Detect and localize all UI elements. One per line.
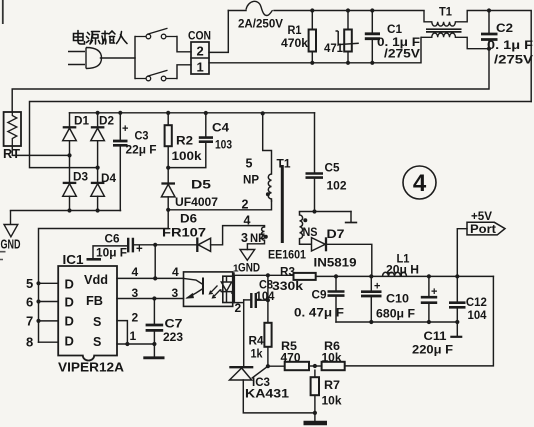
svg-text:NS: NS [303,225,318,239]
svg-text:R3: R3 [280,265,295,279]
junction R3 left node [266,273,270,277]
wire line A to RT [12,49,489,112]
svg-text:D: D [65,334,74,349]
svg-text:+: + [122,123,128,135]
svg-text:NP: NP [243,173,259,187]
svg-text:FR107: FR107 [162,226,206,240]
svg-text:10μ F: 10μ F [96,246,127,260]
wire R3 to rail [316,275,336,277]
wire opto pin2 KA431 cathode [243,300,245,366]
svg-text:D3: D3 [73,170,88,184]
wire D5 anode lead [167,197,169,210]
ground primary GND [4,211,18,237]
capacitor C9 0.47uF [328,292,345,296]
junction Vdd node [153,276,157,280]
svg-text:22μ F: 22μ F [126,143,157,157]
wire S1a to CON pin2 [177,37,191,52]
wire plug to switch [101,57,136,59]
svg-text:C4: C4 [212,121,229,135]
connector CON [191,42,209,74]
svg-text:3: 3 [241,231,248,245]
ground bar primary source [143,356,164,359]
svg-text:CON: CON [188,29,211,43]
svg-text:223: 223 [163,330,183,344]
svg-text:FB: FB [86,294,103,308]
junction gnd node [313,411,317,415]
svg-text:103: 103 [215,138,232,152]
wire RT to bridge AC1 [12,146,69,155]
svg-text:S: S [93,315,101,329]
wire D1-D3 link [69,142,71,183]
junction C12 top [455,274,459,278]
wire D2-D4 link [97,142,99,183]
resistor R2 [165,125,172,146]
junction C10 bottom [369,320,373,324]
wire C3 leads [119,113,121,211]
svg-text:102: 102 [327,179,347,193]
wire C9 leads [335,276,337,322]
svg-text:EE1601: EE1601 [268,248,306,262]
note circled 4 [403,166,436,199]
wire drain to NP pin2 [168,201,271,210]
svg-text:D: D [65,314,74,329]
transformer T1 feedback winding NF [262,226,265,241]
svg-text:+5V: +5V [471,211,492,223]
junction S pins [125,342,129,346]
inductor T1 top winding [424,11,489,27]
wire C7 leads [153,299,155,345]
svg-text:/275V: /275V [494,53,533,67]
capacitor C11 220uF [421,297,437,303]
svg-text:C3: C3 [135,129,149,143]
wire D6 anode to NF pin4 [211,226,265,245]
svg-text:D: D [65,295,74,310]
svg-text:5: 5 [26,276,33,291]
wire C8 left lead [244,299,252,301]
op-amp/IC U1 VIPER12A box [58,266,117,361]
svg-text:6: 6 [26,295,33,310]
diode D2 [91,127,105,140]
wire to fuse F1 [228,10,246,12]
wire output +5V rail [336,275,493,277]
wire CON pin2 to fuse [209,11,228,53]
ground bar C12 [450,336,462,338]
wire C4 leads [168,113,206,168]
wire C10 leads [370,276,372,322]
resistor R6 [322,362,345,370]
optocoupler U2 transistor box [184,272,233,307]
junction C9 top [334,274,338,278]
junction C5 NS node [312,209,316,213]
wire IC1 pin 7 stub [39,320,59,322]
decorative [0,252,6,260]
svg-text:220μ F: 220μ F [412,343,453,357]
wire ref node to R5 [268,365,285,367]
svg-text:D: D [65,277,74,292]
svg-text:1: 1 [130,329,137,343]
capacitor C1 [365,34,380,39]
junction C2 top [487,8,491,12]
wire C2 leads [488,11,490,49]
inductor L1 20uH [383,272,407,276]
wire R5 to R6 [309,365,322,367]
svg-text:1: 1 [197,60,204,75]
svg-text:2: 2 [197,44,204,59]
svg-text:330k: 330k [272,279,303,293]
junction C11 top [427,274,431,278]
svg-text:S: S [93,335,101,349]
svg-text:C7: C7 [165,317,183,331]
svg-text:4: 4 [413,170,427,197]
transformer T1 core [281,165,284,243]
junction C4 top [204,111,208,115]
wire output 0V rail [336,321,457,323]
wire D3 anode lead [69,196,71,210]
wire R1 leads [311,11,313,63]
diode D4 [91,183,105,196]
svg-text:C5: C5 [325,161,340,175]
capacitor C4 103 [199,138,213,142]
svg-text:C6: C6 [105,232,120,246]
svg-text:2A/250V: 2A/250V [238,17,283,31]
wire shield stub [350,212,352,223]
wire opto pin2 [233,302,244,304]
inductor T1 bottom winding [421,33,489,49]
wire FB to opto pin3 [117,298,184,300]
junction D2 top [96,111,100,115]
wire D2 cathode lead [97,113,99,128]
junction C10 top [369,274,373,278]
svg-text:4: 4 [132,265,139,279]
wire C11 leads [428,276,430,322]
transformer T1 primary winding NP [268,174,271,199]
resistor R1 [309,30,316,52]
junction NP pin5 rail [261,111,265,115]
svg-text:3: 3 [172,286,179,300]
svg-text:3: 3 [132,286,139,300]
wire S1b to CON pin1 [177,65,191,79]
capacitor C10 680uF [361,292,382,296]
phase dot NF [264,235,268,239]
wire D7 cathode to rail [326,244,372,276]
AC plug J1 [68,48,102,69]
ground bar C6 [87,258,102,261]
optocoupler phototransistor [184,278,204,299]
svg-text:+: + [374,281,380,293]
svg-text:R1: R1 [288,23,302,37]
junction varistor bottom [346,61,350,65]
wire primary top rail [70,112,315,114]
ground bar secondary [304,421,328,426]
diode D3 [63,183,77,196]
wire IC1 pin 8 stub [39,341,59,343]
svg-text:VIPER12A: VIPER12A [58,361,124,375]
wire drain bus to IC pins [39,210,169,342]
junction C8 right node [266,298,270,302]
wire D5 cathode lead [167,168,169,184]
svg-text:D5: D5 [191,178,211,192]
wire output to R6 [345,276,494,366]
junction AC2 node [96,166,100,170]
wire R4 bottom lead [267,347,269,366]
capacitor C6 10uF [128,238,133,253]
svg-text:2: 2 [235,301,242,315]
wire R3-C8-R4 riser [267,275,269,323]
svg-text:R2: R2 [176,134,193,148]
junction IC1 pin 5 [36,281,40,285]
svg-text:470: 470 [281,350,301,364]
wire NP pin2 stub [271,199,273,201]
wire CON pin1 bottom rail [209,37,421,63]
wire C6 minus lead [93,246,128,258]
svg-text:471: 471 [324,41,343,55]
diode D5 UF4007 [161,184,175,197]
svg-text:D1: D1 [74,114,89,128]
junction snubber node [166,166,170,170]
thermistor RT [4,112,21,146]
svg-text:+: + [431,286,437,298]
junction D3 bottom [67,208,71,212]
svg-text:C11: C11 [424,329,447,343]
optocoupler U2 LED box [223,276,235,302]
optocoupler LED [210,276,233,302]
junction divider node [313,364,317,368]
resistor R5 [285,362,309,370]
junction C11 bottom [427,320,431,324]
wire opto pin1 to R3 [234,274,294,276]
wire line B to bridge AC2 [30,102,532,168]
svg-text:2: 2 [132,311,139,325]
svg-text:R4: R4 [249,334,264,348]
resistor R3 [294,273,316,280]
transformer T1 secondary winding NS [300,212,312,245]
wire S pin2 [117,321,127,344]
svg-text:4: 4 [172,265,179,279]
diode D1 [63,127,77,140]
capacitor C3 22uF [113,141,128,145]
svg-text:C10: C10 [386,292,409,306]
junction R2 top [166,111,170,115]
wire Vdd to opto pin4 [117,277,184,279]
ground arrow NF pin3 [240,250,255,261]
junction varistor top [346,8,350,12]
wire C6 plus lead [133,244,155,246]
wire IC1 pin 6 stub [39,301,59,303]
svg-text:4: 4 [244,214,251,228]
junction C7 bottom [152,342,156,346]
transistor/regulator IC3 KA431 [229,366,268,380]
svg-text:100k: 100k [172,149,202,163]
resistor R7 [311,377,319,395]
svg-text:D6: D6 [180,212,197,226]
svg-text:0. 47μ F: 0. 47μ F [294,306,344,320]
svg-text:C9: C9 [312,288,327,302]
svg-text:1k: 1k [251,347,263,361]
junction C12 bottom [455,320,459,324]
wire C1 leads [371,11,373,63]
svg-text:680μ F: 680μ F [376,307,415,321]
wire C12 leads [456,276,458,322]
wire varistor leads [347,11,349,63]
svg-text:104: 104 [468,308,487,322]
varistor RV1 [344,30,352,52]
svg-text:10k: 10k [322,394,342,408]
capacitor C8 104 [251,293,256,308]
resistor R4 [264,323,271,347]
wire C12 to gnd bar [456,322,458,336]
wire R7 bottom lead [314,395,316,413]
wire R7 top lead [314,370,316,377]
wire to secondary gnd bar [314,413,316,421]
junction Vdd supply node [153,243,157,247]
wire bridge bottom rail [11,210,121,212]
svg-text:5: 5 [246,157,253,171]
T1 choke core [426,29,462,32]
svg-text:D4: D4 [101,171,116,185]
svg-text:C1: C1 [387,22,402,36]
junction FB node [152,296,156,300]
svg-text:GND: GND [1,237,21,252]
wire opto pin1 stub [233,272,235,276]
wire KA431 anode to gnd [243,380,315,413]
junction C3 top [118,111,122,115]
svg-text:D7: D7 [327,227,345,241]
svg-text:NF: NF [250,231,265,245]
capacitor C2 [481,34,498,40]
svg-text:7: 7 [26,314,33,329]
svg-text:0. 1μ F: 0. 1μ F [487,38,533,52]
wire IC1 pin 5 stub [39,282,59,284]
svg-text:GND: GND [238,261,260,275]
svg-text:10k: 10k [322,350,342,364]
thermistor RT zigzag [8,112,17,146]
svg-text:Vdd: Vdd [84,273,108,287]
wire NS top [300,211,352,213]
svg-text:2: 2 [242,198,249,212]
svg-text:470k: 470k [281,36,308,50]
junction IC1 pin 7 [36,319,40,323]
junction R1 top [310,8,314,12]
svg-text:D2: D2 [99,114,114,128]
label: power input (Chinese 电源输入) [74,31,128,45]
svg-text:IN5819: IN5819 [314,256,357,270]
junction R4 ref node [266,364,270,368]
switch S1a [135,28,177,39]
wire to primary gnd bar [153,344,155,357]
connector +5V Port tag [467,222,505,235]
wire +5V riser [457,229,467,277]
junction C1 top [370,8,374,12]
wire D1 cathode lead [69,113,71,128]
wire top L rail [274,10,424,12]
junction IC1 pin 6 [36,299,40,303]
wire C8 right lead [256,299,268,301]
wire CON divider [191,57,209,59]
junction AC1 node [67,153,71,157]
diode D6 FR107 (horizontal, cathode left) [197,238,210,253]
svg-text:C2: C2 [496,21,513,35]
svg-text:20μ H: 20μ H [386,263,419,277]
svg-text:UF4007: UF4007 [175,195,218,209]
capacitor C5 102 [306,174,324,178]
switch S1b [135,70,177,81]
capacitor C7 223 [146,325,164,330]
svg-text:104: 104 [256,289,275,303]
svg-text:KA431: KA431 [245,387,289,401]
junction drain node [166,208,170,212]
svg-text:+: + [136,244,143,256]
svg-text:R7: R7 [324,378,340,392]
wire S pin1 [117,343,154,345]
junction C1 bottom [370,61,374,65]
capacitor C12 104 [449,303,466,308]
junction R1 bottom [310,61,314,65]
svg-text:/275V: /275V [384,47,420,61]
wire switch split [134,37,136,79]
shield stub bar [345,222,357,224]
wire NP pin5 lead [263,113,272,174]
wire NF pin3 to gnd [247,240,264,249]
wire C6 node to D6 cathode [155,244,197,246]
diode D7 IN5819 (horizontal, cathode right) [312,237,327,251]
svg-text:IC1: IC1 [63,253,84,267]
wire D4 anode lead [97,196,99,210]
junction C2 bottom [487,47,491,51]
phase dot NS [303,218,307,222]
phase dot NP [266,192,270,196]
svg-text:T1: T1 [439,5,452,19]
fuse F1 2A/250V [246,1,273,15]
wire top rail to right edge [489,11,531,102]
junction D4 bottom [96,208,100,212]
wire C5 leads [314,113,316,212]
varistor RV1 diagonal [336,31,359,45]
svg-text:Port: Port [470,224,496,236]
svg-text:8: 8 [26,335,33,350]
wire supply node to Vdd wire [154,245,156,279]
wire R2 leads [167,113,169,168]
